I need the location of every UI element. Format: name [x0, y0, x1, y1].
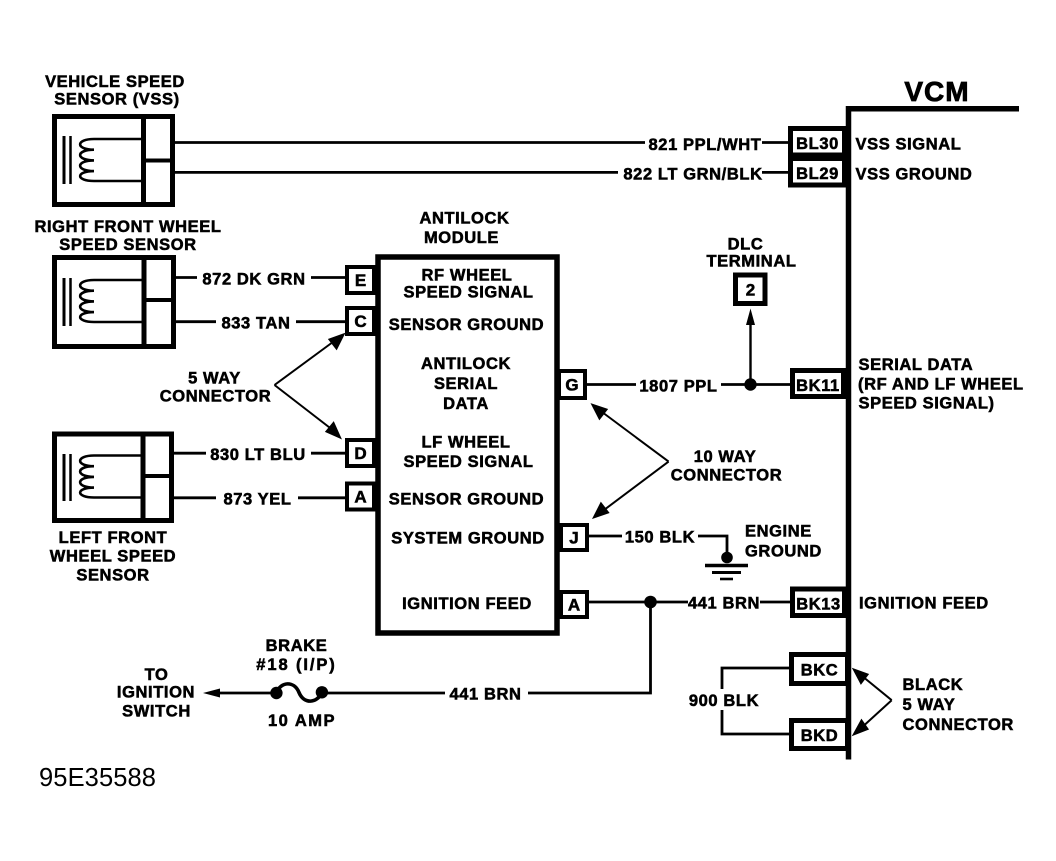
svg-text:IGNITION FEED: IGNITION FEED: [402, 595, 532, 613]
svg-text:MODULE: MODULE: [424, 229, 499, 247]
svg-text:BKC: BKC: [801, 662, 839, 680]
svg-text:SENSOR GROUND: SENSOR GROUND: [389, 491, 544, 509]
svg-text:RIGHT FRONT WHEEL: RIGHT FRONT WHEEL: [34, 218, 221, 236]
wire 833 TAN to pin C: [176, 320, 345, 323]
wire 900 BLK between BKC and BKD: [722, 668, 789, 734]
pointer arrows for black 5 way connector: [854, 670, 892, 735]
svg-text:BRAKE: BRAKE: [266, 637, 328, 655]
svg-text:A: A: [354, 488, 366, 507]
terminal BK13: [793, 589, 845, 616]
svg-text:873 YEL: 873 YEL: [223, 491, 291, 509]
pin J box: [561, 525, 587, 550]
svg-text:CONNECTOR: CONNECTOR: [160, 388, 271, 406]
DLC terminal 2 box: [736, 275, 766, 304]
svg-text:#18 (I/P): #18 (I/P): [256, 656, 336, 674]
svg-text:5 WAY: 5 WAY: [903, 696, 956, 714]
svg-text:SENSOR (VSS): SENSOR (VSS): [54, 91, 179, 109]
pin A box (left): [347, 484, 374, 510]
wire 150 BLK from pin J to engine ground: [587, 536, 727, 556]
svg-text:830 LT BLU: 830 LT BLU: [210, 446, 306, 464]
svg-text:A: A: [568, 596, 580, 615]
svg-text:IGNITION: IGNITION: [117, 684, 195, 702]
svg-text:833 TAN: 833 TAN: [222, 315, 291, 333]
svg-text:LF WHEEL: LF WHEEL: [421, 434, 510, 452]
svg-text:CONNECTOR: CONNECTOR: [903, 716, 1014, 734]
svg-text:SYSTEM GROUND: SYSTEM GROUND: [391, 530, 545, 548]
svg-text:441 BRN: 441 BRN: [688, 595, 760, 613]
wire 873 YEL to pin A: [174, 496, 345, 499]
svg-text:(RF AND LF WHEEL: (RF AND LF WHEEL: [858, 376, 1024, 394]
terminal BL29: [791, 159, 845, 186]
pin E box: [347, 267, 374, 293]
pointer arrows for 10 way connector: [593, 405, 669, 518]
svg-text:441 BRN: 441 BRN: [449, 686, 521, 704]
svg-text:2: 2: [746, 281, 755, 300]
wire 441 BRN from pin A to BK13: [587, 601, 790, 604]
junction dot on 441 BRN: [644, 596, 657, 609]
svg-text:C: C: [354, 312, 366, 331]
terminal BKC: [792, 655, 848, 684]
fuse BRAKE #18 (I/P) 10 AMP: [270, 684, 328, 701]
engine ground symbol: [705, 552, 748, 579]
svg-text:BL29: BL29: [796, 165, 839, 183]
svg-text:900 BLK: 900 BLK: [689, 692, 759, 710]
svg-text:SPEED SENSOR: SPEED SENSOR: [59, 236, 196, 254]
VCM bus line: [846, 106, 1019, 760]
svg-text:BK11: BK11: [796, 377, 840, 395]
svg-text:E: E: [355, 271, 366, 290]
svg-text:VCM: VCM: [904, 76, 969, 107]
pin G box: [559, 371, 585, 398]
svg-text:ANTILOCK: ANTILOCK: [419, 210, 509, 228]
svg-text:95E35588: 95E35588: [39, 764, 156, 792]
pin A box (right): [561, 592, 587, 617]
svg-text:SPEED SIGNAL: SPEED SIGNAL: [403, 284, 533, 302]
wire to ignition switch with arrowhead: [203, 689, 276, 698]
svg-text:VSS SIGNAL: VSS SIGNAL: [856, 136, 962, 154]
wire 1807 PPL from pin G to BK11: [587, 383, 790, 386]
wire 441 BRN down to fuse: [528, 602, 651, 693]
svg-text:VEHICLE SPEED: VEHICLE SPEED: [45, 73, 185, 91]
pin C box: [347, 308, 374, 334]
svg-text:GROUND: GROUND: [745, 543, 822, 561]
svg-text:VSS GROUND: VSS GROUND: [856, 166, 973, 184]
svg-text:150 BLK: 150 BLK: [625, 529, 695, 547]
svg-text:WHEEL SPEED: WHEEL SPEED: [50, 548, 176, 566]
svg-text:BK13: BK13: [796, 596, 841, 614]
svg-text:ENGINE: ENGINE: [745, 523, 812, 541]
junction dot on 1807 PPL: [744, 378, 756, 390]
svg-text:SPEED SIGNAL): SPEED SIGNAL): [859, 395, 995, 413]
svg-text:822 LT GRN/BLK: 822 LT GRN/BLK: [623, 166, 762, 184]
pointer arrows for 5 way connector: [275, 335, 344, 438]
wire 821 PPL/WHT from VSS to BL30: [175, 141, 790, 144]
svg-text:IGNITION FEED: IGNITION FEED: [859, 595, 989, 613]
svg-text:1807 PPL: 1807 PPL: [639, 378, 717, 396]
svg-text:J: J: [569, 529, 578, 548]
svg-text:SENSOR GROUND: SENSOR GROUND: [389, 316, 544, 334]
svg-text:SERIAL: SERIAL: [434, 375, 498, 393]
svg-text:BKD: BKD: [801, 727, 839, 745]
terminal BL30: [791, 129, 845, 156]
svg-text:SPEED SIGNAL: SPEED SIGNAL: [403, 453, 533, 471]
terminal BK11: [793, 371, 844, 397]
svg-text:DLC: DLC: [728, 236, 764, 254]
svg-text:10 WAY: 10 WAY: [694, 448, 757, 466]
svg-text:821 PPL/WHT: 821 PPL/WHT: [649, 136, 762, 154]
terminal BKD: [792, 721, 848, 749]
svg-text:TO: TO: [145, 666, 169, 684]
svg-text:ANTILOCK: ANTILOCK: [421, 355, 511, 373]
svg-text:D: D: [354, 444, 366, 463]
svg-text:BL30: BL30: [796, 135, 839, 153]
wire from junction up to DLC terminal with arrowhead: [746, 309, 755, 385]
pin D box: [347, 440, 374, 466]
antilock module box: [378, 257, 557, 633]
svg-text:RF WHEEL: RF WHEEL: [422, 267, 513, 285]
svg-text:DATA: DATA: [443, 395, 489, 413]
module internal labels: [389, 267, 545, 614]
svg-text:872 DK GRN: 872 DK GRN: [202, 271, 305, 289]
sensor right front wheel speed: [55, 255, 177, 349]
svg-text:10 AMP: 10 AMP: [268, 712, 336, 730]
svg-text:SWITCH: SWITCH: [122, 703, 191, 721]
sensor VSS (vehicle speed sensor): [55, 114, 176, 207]
wire 872 DK GRN to pin E: [176, 276, 345, 279]
svg-text:BLACK: BLACK: [903, 676, 964, 694]
svg-text:G: G: [565, 376, 578, 395]
svg-text:CONNECTOR: CONNECTOR: [671, 467, 782, 485]
svg-text:TERMINAL: TERMINAL: [706, 253, 796, 271]
svg-text:5 WAY: 5 WAY: [188, 370, 241, 388]
wire 822 LT GRN/BLK from VSS to BL29: [175, 171, 790, 174]
wire 830 LT BLU to pin D: [174, 452, 345, 455]
svg-text:SERIAL DATA: SERIAL DATA: [859, 356, 974, 374]
svg-text:LEFT FRONT: LEFT FRONT: [59, 529, 168, 547]
sensor left front wheel speed: [55, 432, 175, 524]
svg-text:SENSOR: SENSOR: [76, 567, 149, 585]
